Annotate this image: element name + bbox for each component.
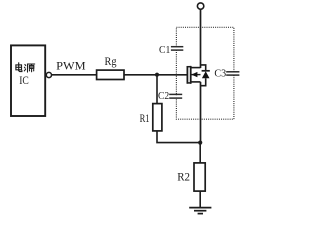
capacitor C3 (226, 73, 240, 75)
diode triangle (202, 71, 210, 78)
wire source node to R2 (199, 143, 201, 163)
label 源 (hand-drawn) (24, 64, 34, 72)
junction dot source node (198, 141, 202, 145)
source connection (191, 81, 201, 83)
svg-text:Rg: Rg (105, 56, 117, 68)
resistor R2 (194, 163, 205, 191)
body arrow (191, 72, 197, 77)
svg-text:IC: IC (19, 73, 29, 87)
label 电 (hand-drawn) (16, 63, 22, 72)
svg-text:PWM: PWM (56, 59, 86, 73)
wire source (200, 82, 202, 143)
top terminal circle (197, 3, 203, 9)
wire gate node to R1 (156, 75, 158, 104)
resistor R1 (153, 104, 162, 131)
wire R2 to ground (199, 191, 201, 207)
ground (189, 208, 211, 214)
svg-text:C2: C2 (158, 91, 169, 102)
diode cathode bar (202, 70, 210, 72)
body diode branch top (201, 65, 206, 71)
channel bar (190, 66, 192, 84)
wire Rg to gate (124, 74, 188, 76)
body stub (191, 74, 200, 76)
body diode branch bottom (201, 78, 206, 85)
wire R1 to source node (157, 131, 200, 143)
capacitor C2 (169, 95, 182, 97)
pin circle PWM output (46, 72, 51, 77)
MOSFET Q1 (187, 66, 201, 84)
power IC box (11, 45, 45, 116)
wire PWM (52, 74, 97, 76)
svg-text:C1: C1 (159, 45, 170, 56)
resistor Rg (97, 70, 124, 79)
dotted parasitic box (176, 27, 234, 119)
gate bar bottom tick (187, 82, 191, 84)
svg-text:R1: R1 (140, 113, 150, 125)
drain connection (191, 67, 201, 69)
gate bar (186, 66, 188, 84)
capacitor C1 (171, 48, 184, 50)
gate bar top tick (187, 66, 191, 68)
svg-text:C3: C3 (214, 69, 226, 80)
wire drain (200, 9, 202, 68)
svg-text:R2: R2 (177, 171, 190, 183)
junction dot gate node (155, 73, 159, 77)
